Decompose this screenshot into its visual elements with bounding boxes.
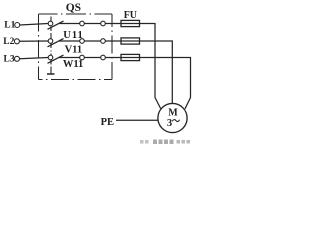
fuse FU2	[121, 38, 140, 44]
contact circle row 3b	[101, 55, 106, 60]
wire row 3	[84, 57, 100, 59]
wire row 3 to fuse	[105, 57, 191, 59]
wire pole 2 to contact	[59, 40, 80, 42]
wire PE to motor	[116, 119, 158, 121]
switch QS handle bar	[47, 73, 55, 75]
contact circle row 2a	[80, 39, 85, 44]
motor M circle	[158, 103, 187, 132]
wire row 2	[84, 40, 100, 42]
terminal L3	[15, 56, 20, 61]
svg-text:L3: L3	[4, 54, 15, 64]
wire W phase down to motor	[185, 57, 191, 109]
svg-text:U11: U11	[63, 30, 84, 41]
svg-text:L1: L1	[4, 21, 15, 31]
wire row 2 to fuse	[105, 40, 173, 42]
switch QS pole 2 blade	[48, 39, 64, 47]
switch QS pole 1 pivot	[48, 21, 53, 26]
switch QS mechanical linkage (dash-dot)	[50, 17, 52, 74]
svg-text:3: 3	[167, 118, 172, 129]
svg-text:QS: QS	[66, 2, 81, 14]
switch QS pole 3 blade	[48, 55, 64, 63]
switch QS pole 2 pivot	[48, 39, 53, 44]
switch QS enclosure (dash-dot box)	[39, 14, 113, 80]
svg-text:W11: W11	[63, 59, 83, 70]
wire pole 3 to contact	[59, 57, 80, 59]
contact circle row 1b	[101, 21, 106, 26]
svg-text:L2: L2	[3, 37, 14, 47]
switch QS pole 3 pivot	[48, 55, 53, 60]
svg-text:FU: FU	[124, 10, 137, 21]
wire L1 to QS	[20, 24, 49, 26]
wire pole 1 to contact	[59, 23, 80, 25]
svg-text:V11: V11	[65, 45, 83, 56]
wire U phase down to motor	[155, 23, 161, 109]
terminal L2	[14, 39, 19, 44]
wire row 1 to fuse	[105, 23, 155, 25]
terminal L1	[15, 23, 20, 28]
wire V phase down to motor	[171, 41, 173, 104]
contact circle row 3a	[80, 55, 85, 60]
contact circle row 2b	[101, 39, 106, 44]
watermark	[140, 140, 190, 145]
svg-text:M: M	[168, 108, 178, 119]
wire L3 to QS	[20, 58, 49, 59]
wire L2 to QS	[19, 40, 48, 42]
switch QS pole 1 blade	[48, 21, 64, 29]
fuse FU3	[121, 54, 140, 60]
contact circle row 1a	[80, 21, 85, 26]
svg-text:PE: PE	[101, 117, 114, 128]
wire row 1	[84, 23, 100, 25]
fuse FU1	[121, 20, 140, 26]
